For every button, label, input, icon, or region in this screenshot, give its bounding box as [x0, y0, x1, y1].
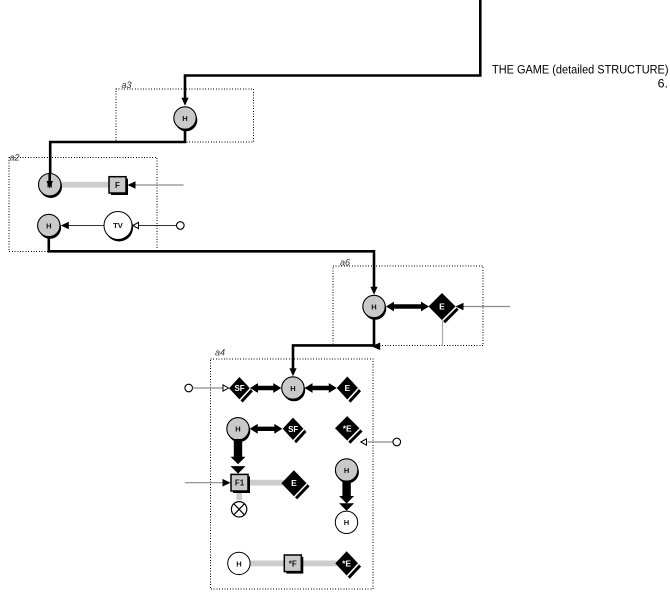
feedback arrowhead onto main wire	[371, 343, 380, 351]
open arrowhead into SF	[223, 385, 229, 391]
thick arrow head 1 (right col)	[339, 496, 354, 504]
*E diamond shadow (a4 row4)	[339, 555, 362, 579]
E diamond white gap (a6)	[430, 294, 457, 321]
frame a2 (dashed box)	[9, 158, 157, 252]
arrowhead into F	[128, 181, 136, 189]
F box (a2)	[109, 177, 126, 193]
SF diamond white gap (a4 row2)	[284, 419, 305, 441]
svg-text:E: E	[291, 478, 297, 488]
svg-text:E: E	[344, 383, 350, 393]
svg-text:*E: *E	[342, 558, 351, 568]
frame a4 (dashed box)	[211, 359, 374, 589]
H white circle (a4 row4)	[228, 552, 250, 574]
H circle shadow (a6)	[364, 297, 386, 319]
line TV to H2	[68, 225, 105, 227]
*E diamond white gap (a4 row2)	[336, 417, 360, 441]
X cross line 1	[234, 504, 245, 515]
svg-text:F1: F1	[235, 479, 245, 488]
double arrow H-SF (a4 row2)	[250, 424, 283, 434]
E diamond (a4 row3)	[281, 470, 306, 496]
E diamond white gap (a4 row1)	[338, 378, 359, 401]
svg-text:E: E	[439, 302, 445, 312]
SF diamond (a4 row2)	[283, 418, 304, 440]
*F box	[284, 555, 301, 572]
H2 circle shadow (a2)	[39, 216, 61, 238]
arrowhead into F1	[223, 479, 231, 487]
E diamond shadow (a4 row1)	[340, 380, 361, 403]
bar H1-F (a2)	[52, 182, 112, 188]
bar H-*F (a4 row4)	[249, 561, 286, 567]
H circle (a6)	[363, 295, 385, 317]
SF diamond shadow (a4 row1)	[232, 380, 253, 402]
open arrowhead into TV	[133, 222, 139, 228]
feedback wire from E (a6) bottom	[442, 320, 444, 346]
frame a6 (dashed box)	[333, 266, 483, 346]
line terminator to SF	[193, 387, 223, 389]
line feedback to terminator (a4 row2)	[368, 441, 394, 443]
X circle (a4)	[231, 502, 246, 517]
H circle (a4 row1)	[282, 377, 304, 399]
E diamond shadow (a4 row3)	[285, 473, 310, 499]
SF diamond white gap (a4 row1)	[230, 378, 251, 400]
svg-text:a2: a2	[10, 153, 20, 163]
double arrow H-E (a6)	[386, 302, 429, 312]
wire a6 H to a4 H	[293, 318, 374, 369]
svg-text:H: H	[182, 114, 187, 123]
double arrow SF-H (a4 row1)	[250, 383, 281, 393]
H circle shadow (a4 row1)	[283, 379, 305, 401]
wire main input (top edge to a3)	[185, 0, 480, 98]
wire a2 H2 to a6 H	[49, 237, 374, 287]
open arrowhead from *E feedback	[361, 439, 367, 445]
TV circle (a2)	[104, 212, 132, 240]
arrowhead into H2	[61, 222, 69, 230]
E diamond white gap (a4 row3)	[283, 471, 308, 497]
bar F1-E (a4)	[248, 480, 284, 486]
wire into H1 center overlay	[48, 173, 51, 181]
bar *F-*E (a4 row4)	[300, 561, 338, 567]
*E diamond (a4 row4)	[335, 551, 358, 575]
svg-text:F: F	[115, 181, 120, 190]
F1 box shadow	[233, 476, 250, 493]
arrowhead into H of a3	[181, 98, 188, 106]
input line into F	[135, 184, 184, 186]
frame a3 (dashed box)	[116, 89, 254, 142]
SF diamond shadow (a4 row2)	[286, 421, 307, 443]
H1 circle (a2)	[39, 174, 61, 196]
H circle (a3)	[174, 107, 196, 129]
arrowhead at H1 center	[46, 181, 53, 189]
svg-text:H: H	[344, 518, 349, 527]
svg-text:H: H	[344, 466, 349, 475]
terminator circle (a4 row2 right)	[393, 438, 401, 446]
terminator circle (a4 row1 left)	[185, 384, 193, 392]
svg-text:H: H	[235, 425, 240, 434]
H white circle (a4 right col)	[335, 511, 357, 533]
svg-text:*F: *F	[289, 559, 297, 568]
double arrow H-E (a4 row1)	[305, 383, 337, 393]
svg-text:H: H	[290, 384, 295, 393]
E diamond (a4 row1)	[337, 377, 358, 400]
TV circle shadow (a2)	[105, 214, 133, 242]
svg-text:6.: 6.	[658, 77, 668, 91]
E diamond (a6)	[429, 293, 456, 320]
H circle (a4 right col)	[335, 459, 357, 481]
svg-text:THE GAME (detailed STRUCTURE): THE GAME (detailed STRUCTURE)	[492, 63, 669, 77]
thick arrow head 2 (right col)	[339, 503, 354, 511]
line terminator to TV	[139, 225, 177, 227]
svg-text:a3: a3	[122, 80, 132, 90]
svg-text:H: H	[371, 302, 376, 311]
svg-text:H: H	[236, 559, 241, 568]
F1 box	[231, 474, 248, 491]
input line into F1	[185, 482, 223, 484]
H circle (a4 row2)	[227, 418, 249, 440]
*E diamond white gap (a4 row4)	[336, 552, 359, 576]
H1 circle shadow (a2)	[40, 176, 62, 198]
input line into E (a6)	[463, 306, 510, 308]
H2 circle (a2)	[38, 214, 60, 236]
*E diamond (a4 row2)	[335, 416, 359, 440]
terminator circle (a2 right)	[177, 222, 185, 230]
svg-text:*E: *E	[343, 423, 352, 433]
wire a3 H to a2 H1	[50, 130, 185, 180]
H circle shadow (a4 row2)	[228, 420, 250, 442]
E diamond shadow (a6)	[432, 296, 459, 323]
svg-text:a4: a4	[215, 348, 225, 358]
svg-text:H: H	[46, 221, 51, 230]
bar F1 down to X circle	[236, 490, 242, 500]
SF diamond (a4 row1)	[229, 377, 250, 399]
H circle shadow (a3)	[175, 109, 197, 131]
arrowhead into H of a6	[370, 287, 377, 295]
svg-text:SF: SF	[234, 384, 244, 393]
arrowhead into E (a6)	[456, 303, 464, 311]
*F box shadow	[286, 557, 303, 574]
svg-text:SF: SF	[288, 425, 298, 434]
thick arrow H to F1 (a4) shaft	[234, 439, 242, 457]
X cross line 2	[234, 504, 245, 515]
thick arrow head 1	[231, 457, 246, 465]
thick arrow head 2	[231, 466, 246, 474]
svg-text:a6: a6	[340, 258, 350, 268]
svg-text:TV: TV	[113, 221, 124, 230]
*E diamond shadow (a4 row2)	[338, 419, 362, 443]
thick arrow H to H (a4 right col) shaft	[342, 481, 350, 497]
H circle shadow (a4 right col)	[337, 461, 359, 483]
arrowhead into H of a4	[289, 368, 296, 376]
F box shadow (a2)	[111, 179, 128, 195]
